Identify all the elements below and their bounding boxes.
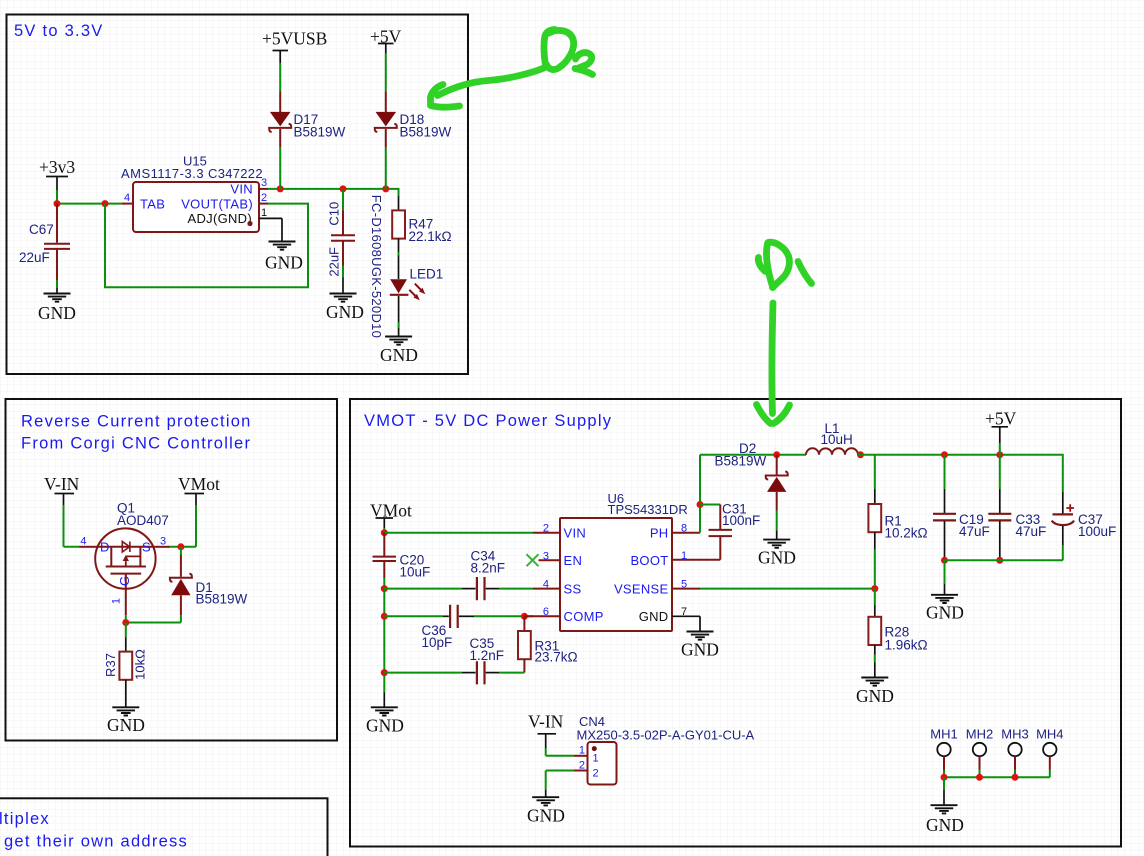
svg-text:100nF: 100nF <box>722 513 760 528</box>
node C33 bottom <box>996 557 1003 564</box>
svg-text:FC-D1608UGK-520D10: FC-D1608UGK-520D10 <box>369 195 384 338</box>
svg-text:8: 8 <box>681 523 687 535</box>
annotation D2 arrow head <box>431 85 444 104</box>
node VIN-C10 <box>340 185 347 192</box>
svg-text:EN: EN <box>564 553 583 568</box>
ground under R28 <box>861 678 888 686</box>
svg-text:47uF: 47uF <box>959 524 990 539</box>
pin 6 COMP <box>524 615 560 617</box>
node COMP/R31 <box>521 613 528 620</box>
pin 4 TAB <box>122 203 133 205</box>
svg-text:GND: GND <box>38 303 76 323</box>
svg-text:COMP: COMP <box>564 609 604 624</box>
svg-text:6: 6 <box>543 606 549 618</box>
svg-text:VSENSE: VSENSE <box>614 581 669 596</box>
svg-text:GND: GND <box>926 603 964 623</box>
svg-text:GND: GND <box>758 548 796 568</box>
svg-text:+5V: +5V <box>985 409 1017 429</box>
svg-text:V-IN: V-IN <box>528 712 564 732</box>
svg-text:1: 1 <box>261 207 267 219</box>
capacitor C34 <box>477 577 485 600</box>
pin 2 CN4 <box>574 770 588 772</box>
wire MH net <box>944 776 1050 778</box>
ground under LED1 <box>385 337 412 345</box>
ground under pin1 <box>269 242 296 250</box>
resistor R47 <box>398 196 400 210</box>
wire PH up <box>699 455 701 533</box>
svg-text:B5819W: B5819W <box>294 125 346 140</box>
svg-text:MH1: MH1 <box>930 727 957 742</box>
wire Q1 gate down <box>125 615 127 622</box>
pin 2 VIN <box>533 532 560 534</box>
svg-text:GND: GND <box>326 302 364 322</box>
node C33 top <box>996 451 1003 458</box>
wire +5VUSB to D17 <box>279 63 281 92</box>
node PH/C31 <box>697 501 704 508</box>
node +3v3/C67 <box>54 200 61 207</box>
wire Q1 source to VMot/D1 <box>155 546 170 548</box>
svg-text:R37: R37 <box>103 653 118 677</box>
capacitor C10 <box>342 190 344 210</box>
capacitor C35 <box>477 661 485 684</box>
diode D2 B5819W <box>776 455 778 475</box>
svg-text:VOUT(TAB): VOUT(TAB) <box>181 197 253 212</box>
svg-text:MX250-3.5-02P-A-GY01-CU-A: MX250-3.5-02P-A-GY01-CU-A <box>577 727 755 742</box>
svg-text:2: 2 <box>261 192 267 204</box>
svg-text:C67: C67 <box>29 222 54 237</box>
svg-text:VIN: VIN <box>564 525 587 540</box>
ground under left column <box>371 707 398 715</box>
svg-text:2: 2 <box>543 523 549 535</box>
wire +5V to D18 <box>385 53 387 92</box>
op-amp U15 body <box>133 182 259 232</box>
wire VOUT feedback loop <box>105 204 308 288</box>
wire VIN row <box>384 532 533 534</box>
svg-text:3: 3 <box>160 536 166 548</box>
svg-text:22uF: 22uF <box>19 250 50 265</box>
svg-text:4: 4 <box>124 192 130 204</box>
svg-text:C10: C10 <box>327 202 342 226</box>
svg-text:1: 1 <box>681 550 687 562</box>
annotation D1 digit 1 <box>798 262 812 284</box>
svg-text:TAB: TAB <box>140 197 165 212</box>
svg-text:+3v3: +3v3 <box>39 157 75 177</box>
svg-text:PH: PH <box>650 525 669 540</box>
wire LED1 to GND <box>398 296 400 322</box>
pin 7 GND <box>672 616 700 631</box>
svg-text:2: 2 <box>593 767 599 779</box>
svg-text:ADJ(GND): ADJ(GND) <box>187 211 252 226</box>
svg-text:3: 3 <box>543 550 549 562</box>
wire VMot stub <box>383 528 385 533</box>
node gate/D1/R37 <box>122 619 129 626</box>
svg-text:MH2: MH2 <box>966 727 993 742</box>
diode D18 B5819W <box>385 92 387 113</box>
capacitor C36 <box>450 605 458 628</box>
svg-text:GND: GND <box>926 815 964 835</box>
svg-text:47uF: 47uF <box>1016 524 1047 539</box>
wire VSENSE row <box>700 588 875 590</box>
wire bottom +5V gnd net <box>945 559 1063 561</box>
svg-text:22.1kΩ: 22.1kΩ <box>409 229 452 244</box>
svg-text:VMot: VMot <box>178 474 220 494</box>
svg-text:3: 3 <box>261 177 267 189</box>
svg-text:22uF: 22uF <box>327 247 342 277</box>
capacitor C19 <box>944 455 946 489</box>
svg-text:23.7kΩ: 23.7kΩ <box>535 650 578 665</box>
svg-text:4: 4 <box>80 536 86 548</box>
svg-text:GND: GND <box>366 716 404 736</box>
pin 8 PH <box>672 532 700 534</box>
svg-text:GND: GND <box>527 806 565 826</box>
pin 1 CN4 <box>574 755 588 757</box>
inductor L1 <box>806 448 858 455</box>
svg-text:100uF: 100uF <box>1078 524 1116 539</box>
pin 1 ADJ(GND) <box>259 218 282 241</box>
wire MH gnd drop <box>943 777 945 790</box>
SEC4 <box>0 798 328 856</box>
svg-text:From Corgi CNC Controller: From Corgi CNC Controller <box>21 435 251 453</box>
svg-text:VMOT - 5V DC Power Supply: VMOT - 5V DC Power Supply <box>364 412 612 430</box>
svg-text:1: 1 <box>111 598 123 604</box>
annotation D1 arrow shaft <box>772 303 773 414</box>
wire VMot to Q1 source <box>195 505 197 547</box>
svg-text:10uH: 10uH <box>821 432 853 447</box>
pin 5 VSENSE <box>672 588 700 590</box>
svg-text:2: 2 <box>579 759 585 771</box>
svg-text:S: S <box>142 540 151 555</box>
node COMP row <box>381 613 388 620</box>
pin 2 VOUT(TAB) <box>259 203 268 205</box>
svg-text:VIN: VIN <box>230 182 253 197</box>
node D2 <box>773 451 780 458</box>
svg-text:+5VUSB: +5VUSB <box>262 29 327 49</box>
ground under D2 <box>763 540 790 548</box>
ground under CN4 <box>532 797 559 805</box>
ANNOT <box>431 30 812 424</box>
annotation D1 letter D <box>768 242 789 287</box>
svg-text:GND: GND <box>107 715 145 735</box>
svg-text:V-IN: V-IN <box>44 474 80 494</box>
frame box 5V to 3.3V <box>7 15 469 375</box>
svg-text:GND: GND <box>265 253 303 273</box>
svg-text:5V to 3.3V: 5V to 3.3V <box>14 22 104 40</box>
node L1 out <box>857 451 864 458</box>
svg-text:GND: GND <box>380 345 418 365</box>
node MH1 <box>941 774 948 781</box>
svg-text:LED1: LED1 <box>410 267 444 282</box>
svg-text:Reverse Current protection: Reverse Current protection <box>21 413 252 431</box>
SEC1 <box>7 15 469 375</box>
annotation D2 arrow shaft <box>438 67 548 96</box>
svg-text:MH4: MH4 <box>1036 727 1063 742</box>
pin 1 BOOT <box>672 536 720 559</box>
wire V-IN to CN4 pin1 <box>546 748 574 756</box>
svg-text:1.2nF: 1.2nF <box>470 648 505 663</box>
svg-text:GND: GND <box>639 609 669 624</box>
node MH3 <box>1012 774 1019 781</box>
pin 3 EN with no-connect <box>539 559 561 561</box>
svg-text:10kΩ: 10kΩ <box>133 649 148 680</box>
svg-text:1: 1 <box>579 745 585 757</box>
frame box VMOT 5V DC Power Supply <box>350 399 1121 847</box>
svg-text:B5819W: B5819W <box>400 125 452 140</box>
frame box multiplex (partial) <box>0 798 328 856</box>
node VSENSE/R1/R28 <box>871 585 878 592</box>
ground under R37 <box>112 707 139 715</box>
svg-text:AMS1117-3.3: AMS1117-3.3 <box>121 166 204 181</box>
ground under C67 <box>44 294 71 302</box>
IC U6 TPS54331DR <box>560 518 672 631</box>
svg-text:8.2nF: 8.2nF <box>471 561 506 576</box>
node TAB junction <box>102 200 109 207</box>
node MH2 <box>976 774 983 781</box>
wire +5V net <box>858 455 1063 492</box>
svg-text:B5819W: B5819W <box>196 592 248 607</box>
wire bottom row <box>384 672 462 674</box>
svg-text:MH3: MH3 <box>1001 727 1028 742</box>
svg-text:SS: SS <box>564 581 582 596</box>
node VMot/VIN <box>381 529 388 536</box>
wire CN4 pin2 to GND <box>546 771 574 791</box>
capacitor C20 <box>373 533 397 578</box>
ground under C10 <box>330 294 357 302</box>
capacitor C33 <box>999 455 1001 489</box>
annotation D2 letter D <box>544 30 555 66</box>
svg-text:GND: GND <box>681 640 719 660</box>
resistor R28 <box>874 589 876 605</box>
node bottom row <box>381 669 388 676</box>
svg-text:B5819W: B5819W <box>715 454 767 469</box>
capacitor C37 polarized <box>1062 492 1064 514</box>
pin 3 VIN <box>259 188 268 190</box>
diode D1 B5819W <box>180 547 182 555</box>
resistor R37 <box>125 623 127 638</box>
svg-text:ltiplex: ltiplex <box>0 810 50 828</box>
node VIN-D18 <box>382 185 389 192</box>
capacitor C31 <box>700 504 720 506</box>
resistor R1 <box>874 455 876 489</box>
svg-text:1.96kΩ: 1.96kΩ <box>885 638 928 653</box>
SEC2 <box>6 399 338 741</box>
ground under MH <box>931 805 958 813</box>
svg-text:TPS54331DR: TPS54331DR <box>608 502 688 517</box>
svg-text:G: G <box>117 576 132 586</box>
SEC3 <box>350 399 1121 847</box>
svg-text:get their own address: get their own address <box>4 833 188 851</box>
wire COMP row <box>384 615 443 617</box>
wire top switch net <box>700 454 806 456</box>
pin 4 SS <box>533 588 560 590</box>
node R1 top <box>941 451 948 458</box>
wire SS row <box>384 588 462 590</box>
wire V-IN to Q1 drain <box>64 505 80 547</box>
svg-text:D: D <box>100 540 110 555</box>
ground under pin7 <box>687 632 714 640</box>
wire C19 gnd drop <box>944 560 946 584</box>
resistor R31 <box>523 616 525 631</box>
node C19 bottom <box>941 557 948 564</box>
ground under C19 <box>931 595 958 603</box>
svg-text:5: 5 <box>681 578 687 590</box>
node VIN-D17 <box>277 185 284 192</box>
svg-text:10pF: 10pF <box>422 635 453 650</box>
LED LED1 <box>390 279 407 293</box>
svg-text:10uF: 10uF <box>400 565 431 580</box>
annotation D2 digit 2 <box>576 53 592 69</box>
node S/VMot/D1 <box>177 543 184 550</box>
frame box Reverse Current protection <box>6 399 338 741</box>
svg-text:BOOT: BOOT <box>630 553 668 568</box>
svg-text:1: 1 <box>593 753 599 765</box>
svg-text:GND: GND <box>856 686 894 706</box>
node C20/SS <box>381 585 388 592</box>
annotation D1 arrow head <box>757 405 771 424</box>
svg-text:C347222: C347222 <box>208 166 263 181</box>
diode D17 B5819W <box>279 92 281 113</box>
wire +3v3 to TAB node <box>57 190 122 204</box>
capacitor C67 <box>44 204 70 280</box>
svg-text:10.2kΩ: 10.2kΩ <box>885 526 928 541</box>
wire VIN net <box>268 189 399 196</box>
svg-text:4: 4 <box>543 578 549 590</box>
wire left column <box>383 589 385 693</box>
svg-text:7: 7 <box>681 606 687 618</box>
svg-text:AOD407: AOD407 <box>117 513 169 528</box>
